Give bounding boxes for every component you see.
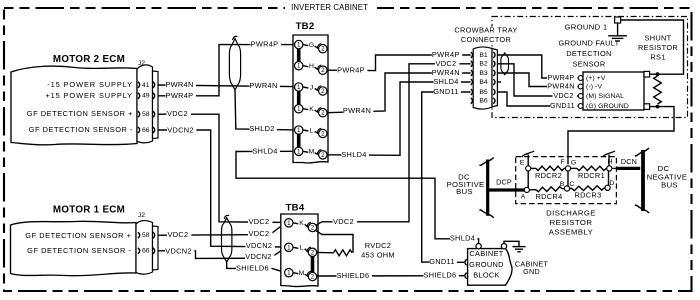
TB2 terminal J <box>295 83 327 95</box>
label DC NEGATIVE BUS <box>647 164 688 189</box>
sensor pin circle GROUND <box>578 104 583 109</box>
pin 49 <box>138 93 155 100</box>
svg-text:RDCR3: RDCR3 <box>575 190 602 199</box>
net label PWR4N (sensor input) <box>547 81 577 90</box>
wire + ground symbol CABINET GND <box>504 241 526 252</box>
sensor right pin square (bottom) <box>644 104 650 110</box>
svg-text:2: 2 <box>321 88 325 95</box>
svg-text:1: 1 <box>287 220 291 227</box>
net label VDC2 (crowbar input) <box>435 59 459 68</box>
svg-text:K: K <box>299 220 304 227</box>
svg-text:SHLD4: SHLD4 <box>433 77 458 86</box>
svg-text:GND11: GND11 <box>550 101 575 110</box>
pin 58 (motor 1) <box>138 232 155 239</box>
svg-text:B5: B5 <box>479 89 488 96</box>
svg-text:2: 2 <box>321 67 325 74</box>
svg-text:DCN: DCN <box>621 157 637 166</box>
svg-text:ASSEMBLY: ASSEMBLY <box>549 227 593 236</box>
net label SHIELD6 (TB4 M input) <box>236 263 271 272</box>
svg-text:M: M <box>309 149 315 156</box>
TB2 jumper bar J-K <box>297 91 301 105</box>
wire PWR4N: TB2 K2 to crowbar B3 <box>327 73 471 113</box>
wire: E down to A <box>527 168 529 190</box>
svg-text:VDC2: VDC2 <box>167 109 188 118</box>
svg-text:INVERTER CABINET: INVERTER CABINET <box>291 3 368 12</box>
wire: H down to D <box>608 168 610 187</box>
svg-text:(G) GROUND: (G) GROUND <box>586 103 629 110</box>
svg-text:K: K <box>309 106 314 113</box>
net label VDC2 (TB4 K input, upper) <box>248 217 272 226</box>
sensor pin circle +V <box>578 76 583 81</box>
svg-text:G: G <box>309 42 314 49</box>
node GROUND 1 (square terminal) <box>615 17 621 23</box>
svg-text:PWR4N: PWR4N <box>249 81 277 90</box>
svg-text:2: 2 <box>321 131 325 138</box>
net label GND11 (cabinet end) <box>429 257 457 266</box>
termination stub above node E <box>522 151 535 166</box>
sensor pin circle -V <box>578 84 583 89</box>
svg-text:PWR4N: PWR4N <box>547 81 574 90</box>
svg-text:49: 49 <box>142 93 150 100</box>
svg-text:PWR4N: PWR4N <box>432 68 460 77</box>
termination stub above node H <box>603 151 616 166</box>
node H <box>607 158 613 171</box>
svg-text:PWR4P: PWR4P <box>251 40 279 49</box>
connector J2 (motor 2 ECM) <box>137 60 158 143</box>
svg-text:2: 2 <box>311 249 315 256</box>
svg-text:BUS: BUS <box>456 187 473 196</box>
ground fault detection sensor <box>559 38 644 110</box>
crowbar tray connector <box>454 25 519 108</box>
wire VDC2: TB4 K2 to crowbar B2 <box>316 64 470 225</box>
svg-text:1: 1 <box>287 244 291 251</box>
sensor right pin square (top) <box>644 71 650 77</box>
net label PWR4P (TB2 G input) <box>251 40 281 49</box>
net label SHLD4 (TB2 M input) <box>252 146 280 155</box>
svg-text:MOTOR 1 ECM: MOTOR 1 ECM <box>53 205 125 216</box>
svg-text:DETECTION: DETECTION <box>566 49 611 58</box>
net label DCP <box>496 177 512 186</box>
svg-text:SHIELD6: SHIELD6 <box>236 263 269 272</box>
svg-text:CABINET: CABINET <box>469 249 503 258</box>
junction dot RS1 top <box>656 72 660 76</box>
svg-text:B3: B3 <box>479 70 488 77</box>
motor 2 ECM block <box>11 54 137 145</box>
net label PWR4P (TB2 H output) <box>337 66 367 75</box>
svg-text:VDCN2: VDCN2 <box>165 246 192 255</box>
wire VDCN2: motor1 J2-66 to TB4 L1 <box>158 248 285 258</box>
crowbar pin B3 <box>471 70 495 77</box>
svg-text:SHUNT: SHUNT <box>645 33 672 42</box>
TB2 terminal L <box>295 126 327 138</box>
crowbar pin B6 <box>471 98 495 105</box>
wire: F/G down to B/C <box>567 168 569 188</box>
svg-text:SHLD2: SHLD2 <box>249 124 274 133</box>
svg-text:J: J <box>310 84 313 91</box>
net label SHIELD6 (TB4 M output) <box>337 271 372 280</box>
wire VDC2: crowbar B2 to sensor SIGNAL <box>497 64 578 96</box>
net label GND11 (crowbar input) <box>433 87 461 96</box>
wire PWR4P: crowbar B1 to sensor +V <box>497 55 578 78</box>
svg-text:2: 2 <box>311 274 315 281</box>
crowbar pin B4 <box>471 79 495 86</box>
net label VDCN2 (motor2) <box>167 125 196 134</box>
net label PWR4P (crowbar input) <box>432 50 462 59</box>
crowbar pin B5 <box>471 89 495 96</box>
twisted/shielded pair symbol (VDC2/VDCN2) <box>222 215 232 262</box>
TB2 terminal K <box>295 105 327 117</box>
svg-text:453 OHM: 453 OHM <box>361 250 395 259</box>
svg-text:SHLD4: SHLD4 <box>252 146 277 155</box>
resistor RDCR2 <box>535 166 564 180</box>
svg-text:GROUND 1: GROUND 1 <box>565 23 608 32</box>
svg-text:B4: B4 <box>479 79 488 86</box>
svg-text:DCP: DCP <box>496 177 512 186</box>
svg-text:PWR4N: PWR4N <box>165 80 193 89</box>
wire: sensor top pin to ground loop <box>621 20 684 74</box>
svg-text:+15 POWER SUPPLY: +15 POWER SUPPLY <box>45 91 133 100</box>
pin 58 <box>138 111 155 118</box>
net label SHLD4 (crowbar input) <box>433 77 461 86</box>
wire: B/C to RDCR3 <box>562 188 572 190</box>
svg-text:(M) SIGNAL: (M) SIGNAL <box>586 93 624 100</box>
svg-text:D: D <box>609 180 614 187</box>
TB2 jumper bar G-H <box>297 49 301 63</box>
wire SHIELD6: shield drain to TB4 M1 <box>227 262 285 272</box>
label CABINET GND <box>515 260 549 276</box>
svg-text:GF DETECTION SENSOR -: GF DETECTION SENSOR - <box>29 125 133 134</box>
svg-text:E: E <box>520 159 525 166</box>
crowbar pin B1 <box>471 52 495 59</box>
svg-text:G: G <box>571 159 576 166</box>
svg-text:PWR4P: PWR4P <box>166 91 194 100</box>
svg-text:GROUND: GROUND <box>469 260 504 269</box>
block pin hook GND11 <box>465 259 467 265</box>
net label PWR4N (TB2 J input) <box>249 81 280 90</box>
svg-text:VDC2: VDC2 <box>249 229 270 238</box>
net label PWR4N (TB2 K output) <box>343 106 374 115</box>
wire GND11: crowbar B5 to sensor GROUND <box>497 92 578 106</box>
svg-text:1: 1 <box>297 84 301 91</box>
svg-text:1: 1 <box>297 148 301 155</box>
svg-text:VDC2: VDC2 <box>436 59 457 68</box>
DC negative bus bar <box>635 148 649 213</box>
cabinet block terminal circle (SHLD4) <box>476 244 481 249</box>
svg-text:L: L <box>310 127 314 134</box>
svg-text:B6: B6 <box>479 98 488 105</box>
svg-text:RS1: RS1 <box>650 52 665 61</box>
net label PWR4P (motor2) <box>166 91 196 100</box>
net label DCN <box>621 157 637 166</box>
svg-text:GND11: GND11 <box>433 87 459 96</box>
svg-text:BLOCK: BLOCK <box>473 271 500 280</box>
TB2 terminal G <box>295 40 327 53</box>
net label PWR4N (motor2) <box>165 80 196 89</box>
net label SHLD4 (cabinet end) <box>450 234 478 243</box>
wire SHLD4 net: TB2 M1 down-around to cabinet ground block <box>236 151 479 243</box>
shunt resistor RS1 <box>638 33 678 104</box>
label DC POSITIVE BUS <box>447 173 485 196</box>
svg-text:2: 2 <box>311 225 315 232</box>
svg-text:TB2: TB2 <box>296 21 315 32</box>
wire PWR4P: TB2 H2 to crowbar B1 <box>327 55 471 71</box>
resistor RDCR1 <box>577 166 606 180</box>
svg-text:(+) +V: (+) +V <box>586 75 606 82</box>
twisted/shielded pair symbol (PWR4P/PWR4N) <box>229 36 240 90</box>
svg-text:VDC2: VDC2 <box>168 230 189 239</box>
net label: INVERTER CABINET <box>285 2 377 13</box>
svg-text:1: 1 <box>287 270 291 277</box>
svg-text:PWR4P: PWR4P <box>432 50 460 59</box>
wire SHLD2: shield drain to TB2 L1 <box>235 90 294 130</box>
wire PWR4N: motor2 J2-41 to TB2 J1 <box>158 85 294 87</box>
svg-text:2: 2 <box>321 46 325 53</box>
net label PWR4N (crowbar input) <box>432 68 463 77</box>
wire: bottom rail A-B/C <box>529 189 536 191</box>
svg-text:RESISTOR: RESISTOR <box>638 43 678 52</box>
svg-text:41: 41 <box>142 82 150 89</box>
svg-text:GND11: GND11 <box>429 257 455 266</box>
svg-text:L: L <box>300 245 304 252</box>
node E <box>520 159 531 171</box>
wire: top rail E-F/G-H <box>531 167 610 169</box>
svg-text:1: 1 <box>297 127 301 134</box>
svg-text:SHLD4: SHLD4 <box>450 234 475 243</box>
wire PWR4P: motor2 J2-49 up and to TB2 G1 <box>158 45 294 96</box>
svg-text:RDCR4: RDCR4 <box>536 192 563 201</box>
svg-text:B1: B1 <box>479 52 488 59</box>
pin 66 <box>138 127 155 134</box>
wire stub at crowbar B4 <box>497 81 501 83</box>
svg-text:MOTOR 2 ECM: MOTOR 2 ECM <box>53 54 125 65</box>
pin 41 <box>138 82 155 89</box>
DC positive bus bar <box>480 158 494 218</box>
motor 1 ECM block <box>11 205 137 276</box>
svg-text:GF DETECTION SENSOR +: GF DETECTION SENSOR + <box>27 109 133 118</box>
svg-text:H: H <box>309 63 314 70</box>
sensor pin circle SIGNAL <box>578 94 583 99</box>
svg-text:VDC2: VDC2 <box>553 91 573 100</box>
svg-text:58: 58 <box>142 232 150 239</box>
svg-text:GF DETECTION SENSOR -: GF DETECTION SENSOR - <box>27 246 131 255</box>
crowbar pin B2 <box>471 61 495 68</box>
svg-text:GROUND FAULT: GROUND FAULT <box>559 38 620 47</box>
pin 66 (motor 1) <box>138 248 155 255</box>
net label VDC2 (sensor input) <box>553 91 577 100</box>
twisted pair symbol (crowbar PWR4P/PWR4N) <box>501 53 509 75</box>
svg-text:RDCR2: RDCR2 <box>535 171 562 180</box>
ground fault sensing enclosure (dash-dot box) <box>492 17 688 118</box>
net label VDC2 (TB4 K input, lower) <box>248 229 272 238</box>
svg-text:CONNECTOR: CONNECTOR <box>461 35 511 44</box>
wire GND11: crowbar B5 down to cabinet ground block <box>422 92 471 262</box>
net label GND11 (sensor input) <box>550 101 577 110</box>
net label VDCN2 (TB4 L input, upper) <box>246 241 275 250</box>
node A <box>521 187 530 200</box>
label: DISCHARGE RESISTOR ASSEMBLY <box>546 208 596 236</box>
node B/C <box>560 181 575 191</box>
wire DCN: node H to bus (thick) <box>612 167 640 169</box>
net label SHIELD6 (cabinet end) <box>424 271 459 280</box>
svg-text:VDCN2: VDCN2 <box>246 241 273 250</box>
wire VDC2: motor2 J2-58 down to TB4 K1 <box>158 114 285 222</box>
wire PWR4N: crowbar B3 to sensor -V <box>497 73 578 87</box>
svg-text:BUS: BUS <box>661 181 678 190</box>
wire SHIELD6: TB4 M2 to cabinet ground block <box>317 275 465 277</box>
svg-text:B: B <box>560 181 565 188</box>
svg-text:C: C <box>569 181 574 188</box>
terminal block TB2 <box>293 21 328 163</box>
junction dot RS1 bottom <box>656 105 660 109</box>
discharge resistor assembly (dashed box) <box>516 157 617 204</box>
wire VDC2: motor1 J2-58 to TB4 K1 <box>158 224 285 236</box>
net label VDC2 (motor1) <box>167 230 191 239</box>
svg-text:SHIELD6: SHIELD6 <box>424 271 457 280</box>
TB4 terminal M <box>285 269 317 281</box>
net label SHLD2 (TB2 L input) <box>249 124 277 133</box>
svg-text:58: 58 <box>142 111 150 118</box>
connector J2 (motor 1 ECM) <box>136 212 158 274</box>
net label PWR4P (sensor input) <box>547 73 577 82</box>
TB2 terminal M <box>295 147 327 159</box>
svg-text:B2: B2 <box>479 61 488 68</box>
svg-text:2: 2 <box>321 152 325 159</box>
svg-text:A: A <box>521 194 526 201</box>
cabinet ground block <box>468 249 512 286</box>
svg-text:-15 POWER SUPPLY: -15 POWER SUPPLY <box>47 80 133 89</box>
svg-text:PWR4P: PWR4P <box>337 66 365 75</box>
TB4 terminal K <box>285 219 317 232</box>
TB2 terminal H <box>295 61 327 74</box>
svg-text:RDCR1: RDCR1 <box>578 171 605 180</box>
svg-text:1: 1 <box>297 106 301 113</box>
resistor RDCR4 <box>536 187 563 201</box>
svg-text:GND: GND <box>523 267 540 276</box>
wire: sensor bottom pin to RS1 and down to discharge F/G <box>568 107 674 165</box>
svg-text:VDC2: VDC2 <box>249 217 270 226</box>
svg-text:SHLD4: SHLD4 <box>341 150 366 159</box>
terminal block TB4 <box>281 203 318 287</box>
wire VDCN2: motor2 J2-66 down to TB4 L1 <box>158 130 285 247</box>
svg-text:RESISTOR: RESISTOR <box>550 218 593 227</box>
svg-text:TB4: TB4 <box>286 203 305 214</box>
svg-text:J2: J2 <box>138 212 145 219</box>
svg-text:CROWBAR TRAY: CROWBAR TRAY <box>454 25 517 34</box>
svg-text:VDC2: VDC2 <box>333 217 354 226</box>
svg-text:H: H <box>608 158 613 165</box>
label GROUND 1 <box>565 23 608 32</box>
svg-text:F: F <box>560 159 564 166</box>
svg-text:2: 2 <box>321 110 325 117</box>
block pin hook SHIELD6 <box>465 273 467 279</box>
svg-text:1: 1 <box>297 42 301 49</box>
svg-text:VDCN2: VDCN2 <box>245 252 272 261</box>
cabinet block terminal circle (to cabinet gnd) <box>501 244 506 249</box>
net label VDCN2 (TB4 L input, lower) <box>245 252 274 261</box>
svg-text:J2: J2 <box>138 60 145 67</box>
svg-text:VDCN2: VDCN2 <box>167 125 194 134</box>
net label VDC2 (TB4 K output) <box>333 217 357 226</box>
svg-text:SENSOR: SENSOR <box>572 59 605 68</box>
TB4 terminal L <box>285 243 317 256</box>
svg-text:66: 66 <box>142 127 150 134</box>
svg-text:DISCHARGE: DISCHARGE <box>546 208 596 217</box>
wire: RDCR3 to D <box>604 187 608 189</box>
TB2 jumper bar L-M <box>297 134 301 147</box>
resistor RDCR3 <box>572 186 604 200</box>
net label VDC2 (motor2) <box>167 109 191 118</box>
resistor RVDC2 453 OHM across TB4 K2-L2 <box>316 231 395 260</box>
svg-text:GF DETECTION SENSOR +: GF DETECTION SENSOR + <box>25 231 131 240</box>
net label SHLD4 (TB2 M output) <box>341 150 369 159</box>
svg-text:1: 1 <box>297 63 301 70</box>
svg-text:M: M <box>299 270 305 277</box>
svg-text:(-) -V: (-) -V <box>586 83 602 90</box>
wire SHLD4: TB2 M2 to crowbar B4 <box>327 82 471 155</box>
ground symbol GROUND 1 <box>608 23 627 41</box>
svg-text:RVDC2: RVDC2 <box>365 241 391 250</box>
svg-text:66: 66 <box>142 248 150 255</box>
net label VDCN2 (motor1) <box>165 246 194 255</box>
svg-text:SHIELD6: SHIELD6 <box>337 271 370 280</box>
svg-text:PWR4N: PWR4N <box>343 106 371 115</box>
TB4 jumper bar L-M <box>311 256 315 272</box>
wire DCP: bus to node A (thick) <box>489 188 525 191</box>
node F/G <box>560 159 576 171</box>
node D <box>605 180 614 191</box>
